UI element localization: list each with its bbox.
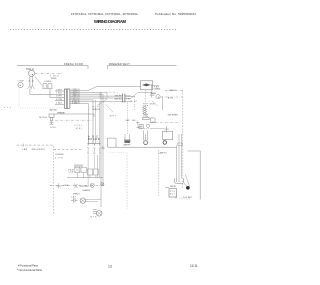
wire after switch 1: [125, 95, 135, 97]
wire R7 crossing: [70, 100, 130, 103]
svg-text:CAB GND: CAB GND: [49, 108, 58, 111]
section bracket A line: [17, 66, 88, 69]
svg-text:PWR CORD: PWR CORD: [58, 112, 66, 114]
bus circle-x: [90, 183, 94, 187]
edge dots: [4, 107, 11, 109]
svg-text:BLK: BLK: [168, 97, 174, 99]
small box B: [81, 167, 86, 172]
connector J1 left shell: [64, 89, 66, 108]
divider junction tick: [22, 144, 24, 147]
drop pin arrows: [87, 153, 101, 155]
wire drop x151.8: [151, 84, 153, 98]
wires from motor: [86, 200, 102, 202]
wire R2 down-drop x101: [70, 92, 101, 207]
defrost thermostat cup: [150, 118, 155, 121]
dashed cabinet border right: [182, 91, 184, 189]
wire fan drop dashed: [145, 90, 147, 103]
small box D: [94, 169, 99, 175]
section bracket B line: [108, 66, 177, 69]
wire dashed drop x127 lower: [126, 153, 128, 210]
connector feet: [27, 86, 34, 89]
dashed inner border x158.8: [158, 150, 160, 196]
svg-text:DEF THERM: DEF THERM: [168, 114, 178, 116]
svg-text:GROUND: GROUND: [80, 186, 90, 188]
stub wires text to strip: [89, 140, 100, 143]
svg-text:CONN BLK: CONN BLK: [55, 154, 65, 156]
lamp1 feed U: [144, 130, 148, 140]
ground L wire: [188, 151, 201, 200]
wire y128.7: [150, 128, 164, 130]
dotted under bus: [60, 188, 72, 190]
FF lamp feeds: [125, 134, 129, 140]
bus cross 1: [56, 183, 61, 188]
wire crossing diag 2: [106, 104, 113, 112]
dashes under: [140, 128, 150, 130]
dashed divider y145: [17, 144, 54, 146]
sensor circle: [146, 124, 149, 127]
wire dash-dot y120: [50, 119, 93, 121]
wire crossing hline: [92, 91, 118, 93]
power plug body: [49, 114, 54, 117]
svg-text:BLK-14: BLK-14: [93, 109, 101, 111]
wire top right: [151, 84, 159, 86]
evap fan blades: [142, 84, 150, 86]
timer body leads: [29, 77, 34, 86]
compressor motor circle: [96, 211, 102, 217]
svg-text:13: 13: [108, 265, 112, 269]
svg-text:LAMP FZ: LAMP FZ: [159, 152, 168, 155]
contact marks: [93, 210, 97, 214]
wire dash-dot y97: [160, 96, 182, 98]
tiny H marks: [102, 147, 104, 150]
gray fill block: [74, 164, 83, 166]
wire R1 to evap fan: [70, 86, 141, 90]
cluster stubs: [77, 173, 96, 178]
svg-text:GND: GND: [50, 127, 57, 129]
cold control circle: [156, 95, 160, 99]
wire dash-dot from timer: [35, 72, 62, 74]
relay box: [169, 189, 177, 198]
svg-text:GRN: GRN: [149, 103, 155, 105]
svg-text:TIMER: TIMER: [51, 78, 58, 80]
svg-text:MULLION HTR: MULLION HTR: [32, 149, 46, 151]
plug prongs: [51, 117, 53, 121]
svg-text:CAP: CAP: [71, 196, 77, 199]
defrost timer T1: [28, 70, 34, 76]
svg-text:Publication No. 5995580024: Publication No. 5995580024: [155, 12, 196, 16]
svg-text:FFHT18GL, FFTR18GL, FFHT18GL,: FFHT18GL, FFTR18GL, FFHT18GL, FFTR18GL,: [71, 12, 139, 16]
wire dash-dot y122.4: [150, 121, 179, 123]
svg-text:FREEZER SECT: FREEZER SECT: [109, 62, 130, 66]
door switch connector bars: [122, 94, 125, 103]
tee marks: [136, 122, 140, 126]
svg-text:GRN: GRN: [63, 185, 69, 187]
terminal strip bar: [87, 144, 100, 146]
wire left pin 1: [55, 90, 64, 92]
tick: [57, 112, 59, 114]
condenser fan motor: [80, 198, 85, 203]
wire conn to J1: [50, 89, 64, 97]
svg-text:3 ORN: 3 ORN: [56, 99, 63, 101]
bus circle-x 2: [101, 183, 104, 186]
dotted separator line: [10, 29, 176, 31]
wire squiggle dashes: [175, 197, 177, 200]
tee y126: [164, 126, 169, 133]
svg-text:* Non-functional Parts: * Non-functional Parts: [17, 268, 43, 272]
svg-text:FRESH FOOD: FRESH FOOD: [64, 62, 83, 66]
cluster bus line: [67, 177, 103, 179]
svg-text:WHT: WHT: [110, 115, 117, 117]
svg-text:2 BLK: 2 BLK: [56, 93, 63, 95]
small box C: [87, 169, 93, 175]
svg-text:LAMP FF: LAMP FF: [123, 143, 131, 146]
svg-text:5 WHT: 5 WHT: [56, 96, 63, 98]
wire y187.7: [165, 187, 169, 189]
strip drop wires: [88, 149, 100, 153]
svg-text:2(1): 2(1): [75, 125, 82, 127]
wire timer to connector J1: [30, 89, 65, 94]
wire dash-dot right y90.5: [165, 90, 183, 92]
dash-dot main bus y185.5: [50, 185, 104, 187]
FF lamp block dark: [124, 140, 130, 142]
defrost heater coil: [143, 107, 147, 115]
wire drop x99.8: [99, 102, 101, 144]
wire R3 down-drop x103: [70, 94, 103, 186]
svg-text:WIRING DIAGRAM: WIRING DIAGRAM: [94, 19, 127, 24]
wire continuations to lower cluster: [88, 155, 100, 186]
line cord circle: [18, 82, 23, 87]
FZ lamp circle: [144, 141, 148, 145]
wire R8 down-drop x88.6: [70, 104, 89, 144]
wire left pin 3: [55, 100, 64, 102]
dotted line under timer cluster: [20, 107, 70, 109]
timer box small: [108, 138, 116, 147]
svg-text:4 BLK: 4 BLK: [56, 103, 63, 105]
plug cross marks: [50, 121, 54, 125]
overload bracket: [175, 178, 184, 183]
svg-text:SW-FZ: SW-FZ: [115, 99, 123, 101]
connector J1 right shell: [67, 89, 70, 108]
svg-text:14-PLUG: 14-PLUG: [39, 117, 47, 119]
wire solid y114: [54, 114, 94, 117]
svg-text:11/11: 11/11: [190, 264, 198, 268]
strip pin marks: [87, 147, 101, 148]
wire diag: [152, 101, 158, 107]
wire R5 to door switch: [70, 97, 122, 99]
compressor ladder wires: [177, 134, 182, 178]
junction box small: [100, 92, 107, 98]
wire after switch 2: [125, 93, 152, 99]
svg-text:3(4): 3(4): [76, 128, 82, 130]
svg-text:# Functional Parts: # Functional Parts: [18, 264, 39, 268]
svg-text:11 TAN 18: 11 TAN 18: [72, 101, 81, 104]
svg-text:CONN: CONN: [44, 81, 51, 83]
svg-text:CON: CON: [68, 172, 74, 174]
svg-text:CONTROL: CONTROL: [154, 88, 161, 90]
wire drop x162.4: [161, 96, 163, 110]
svg-text:BLK —: BLK —: [132, 120, 138, 122]
svg-text:4-PIN: 4-PIN: [55, 157, 64, 159]
dashed divider y149.6: [54, 149, 83, 151]
wire left pin 4: [55, 103, 64, 105]
diagonal wire: [35, 76, 42, 85]
cap bars: [71, 198, 78, 202]
svg-text:SHIELD: SHIELD: [169, 90, 177, 92]
small box A: [75, 167, 80, 172]
long shelf line: [108, 146, 177, 148]
diag ground wire: [185, 174, 189, 186]
svg-text:SW-FF: SW-FF: [115, 95, 123, 97]
svg-text:1 WHT: 1 WHT: [56, 89, 63, 91]
svg-text:MTR: MTR: [90, 216, 97, 218]
wire dashed drop x127.5 lamp feed: [127, 102, 129, 134]
bus cross 2: [74, 184, 77, 188]
wire R4 to door switch: [70, 95, 122, 97]
svg-text:RLY: RLY: [170, 194, 176, 196]
svg-text:SHIELD: SHIELD: [73, 193, 81, 195]
svg-text:BOARD: BOARD: [88, 138, 100, 141]
defrost limit box: [139, 125, 143, 129]
svg-text:B-12: B-12: [131, 101, 138, 103]
svg-text:CAB: CAB: [22, 148, 28, 151]
wire dashed drop x134.6: [134, 96, 136, 110]
FZ lamp2 dark: [163, 141, 166, 144]
svg-text:RELAY: RELAY: [170, 185, 177, 188]
svg-text:ORN: ORN: [126, 120, 131, 122]
ladder top box: [178, 143, 183, 145]
freezer lamp box: [163, 131, 173, 139]
wire drop x95.5: [95, 100, 97, 144]
svg-text:CHASSIS: CHASSIS: [82, 189, 91, 192]
dotted under shelf: [110, 151, 126, 153]
wire diag to motor: [184, 183, 188, 187]
wire R6 down-drop x93: [70, 100, 93, 144]
lamp3 feeds: [164, 140, 166, 142]
evap fan motor box: [141, 81, 153, 90]
plug connector P2: [43, 83, 52, 88]
run capacitor blob: [186, 186, 190, 190]
dotted ground drop: [18, 89, 20, 107]
svg-text:COLD: COLD: [150, 95, 156, 97]
dashed border left x53.5: [53, 146, 55, 214]
wire crossing diag 1: [98, 99, 108, 105]
heater terminal box: [143, 117, 150, 119]
